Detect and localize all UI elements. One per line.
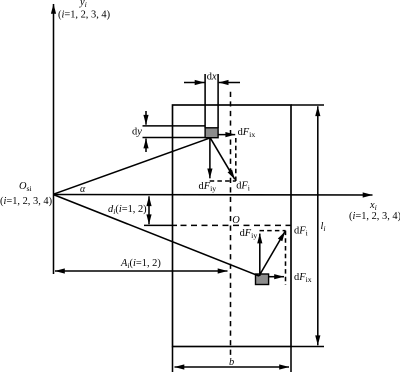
svg-text:yi: yi xyxy=(79,0,87,9)
svg-text:li: li xyxy=(321,221,326,233)
svg-text:dy: dy xyxy=(132,127,142,138)
svg-text:di(i=1, 2): di(i=1, 2) xyxy=(108,204,147,216)
svg-text:(i=1, 2, 3, 4): (i=1, 2, 3, 4) xyxy=(0,196,52,207)
svg-text:dFix: dFix xyxy=(294,272,312,284)
svg-text:b: b xyxy=(229,357,234,368)
svg-text:(i=1, 2, 3, 4): (i=1, 2, 3, 4) xyxy=(349,211,400,222)
svg-text:O: O xyxy=(232,215,240,226)
svg-text:dx: dx xyxy=(207,72,217,83)
svg-text:dFi: dFi xyxy=(294,226,309,238)
svg-text:dFiy: dFiy xyxy=(199,181,217,193)
svg-text:dFix: dFix xyxy=(238,127,256,139)
svg-text:dFi: dFi xyxy=(236,180,251,192)
svg-text:α: α xyxy=(80,184,86,195)
svg-text:Osi: Osi xyxy=(19,181,33,193)
svg-text:dFiy: dFiy xyxy=(240,228,258,240)
svg-text:Ai(i=1, 2): Ai(i=1, 2) xyxy=(120,258,161,270)
svg-text:(i=1, 2, 3, 4): (i=1, 2, 3, 4) xyxy=(58,9,110,20)
